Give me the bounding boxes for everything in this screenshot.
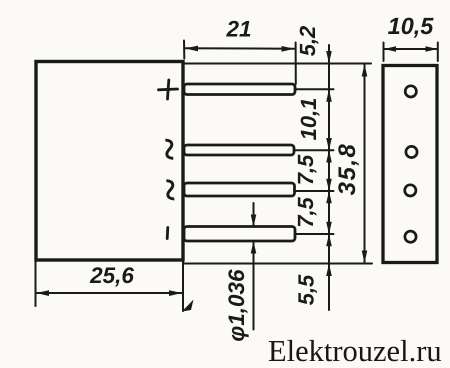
- svg-text:φ1,036: φ1,036: [224, 269, 249, 342]
- rectifier body outline: [36, 62, 183, 261]
- pin1 extension line to chain: [295, 88, 334, 90]
- arrow 21 left: [185, 46, 198, 52]
- svg-text:Elektrouzel.ru: Elektrouzel.ru: [268, 334, 442, 368]
- dia 1,036 leader line lower: [253, 241, 255, 330]
- hourglass arrows at pin3 ext: [326, 179, 332, 191]
- dim 25,6: left extension: [35, 262, 37, 306]
- svg-text:5,2: 5,2: [295, 25, 320, 56]
- dim 25,6: dimension line: [36, 292, 182, 294]
- svg-text:35,8: 35,8: [334, 143, 361, 196]
- chain dimension line (x=329): [328, 45, 330, 310]
- dim 21: right extension line: [295, 43, 297, 85]
- dim 21: dimension line: [185, 47, 294, 49]
- pin 3 (~) lead: [184, 183, 295, 196]
- dia 1,036 leader line upper: [253, 203, 255, 227]
- plate hole 2: [406, 146, 417, 157]
- svg-text:21: 21: [225, 17, 251, 42]
- svg-text:7,5: 7,5: [293, 154, 318, 185]
- label - (pin 4 polarity, rotated minus): [166, 228, 169, 239]
- arrow 10,5 right: [426, 46, 438, 51]
- svg-text:5,5: 5,5: [294, 274, 319, 305]
- arrow dia top (down onto pin4 top): [251, 215, 257, 228]
- pin4 extension line to chain: [295, 233, 334, 235]
- arrow 5,5 bottom (up onto bottom line): [326, 264, 332, 277]
- pin2 extension line to chain: [294, 149, 334, 151]
- arrow 35,8 top: [362, 64, 368, 77]
- top extension line: [184, 63, 371, 65]
- plate hole 4: [405, 231, 416, 242]
- label + (pin 1 polarity): [159, 80, 178, 99]
- dim 10,5: dimension line: [384, 48, 438, 50]
- dim 35,8 line: [364, 64, 366, 264]
- arrow dia bottom (up onto pin4 bottom): [251, 241, 257, 254]
- arrow at pin1 ext (up): [326, 89, 332, 102]
- hourglass arrows at pin4 ext: [326, 222, 332, 234]
- svg-text:~: ~: [147, 178, 193, 202]
- svg-text:10,1: 10,1: [296, 98, 321, 141]
- pin 4 (-) lead: [184, 227, 295, 242]
- dim 10,5: right extension tick: [437, 43, 439, 62]
- pin3 extension line to chain: [295, 190, 334, 192]
- plate hole 3: [405, 185, 416, 196]
- arrow 21 right: [282, 46, 295, 52]
- arrow 5,2 top (down onto top line): [326, 51, 332, 64]
- pin 1 (+) lead: [184, 84, 295, 95]
- dim 25,6: right extension (body edge extended): [182, 260, 184, 311]
- arrow 25,6 left: [36, 290, 49, 296]
- small diagonal arrow at extension end: [182, 300, 194, 312]
- pin 2 (~) lead: [184, 145, 294, 155]
- svg-text:10,5: 10,5: [388, 13, 435, 39]
- mounting plate outline: [383, 66, 437, 263]
- dim 10,5: left extension tick: [383, 43, 385, 62]
- arrow 25,6 right: [169, 290, 182, 296]
- svg-text:25,6: 25,6: [89, 263, 134, 288]
- plate hole 1: [405, 86, 416, 97]
- arrowheads: [36, 46, 438, 312]
- bottom extension line: [184, 263, 372, 265]
- hourglass arrows at pin2 ext: [326, 138, 332, 150]
- dim 21: left extension tick: [183, 41, 185, 59]
- arrow 35,8 bottom: [362, 251, 368, 264]
- svg-text:~: ~: [145, 137, 191, 161]
- svg-text:7,5: 7,5: [293, 196, 318, 227]
- arrow 10,5 left: [384, 46, 396, 51]
